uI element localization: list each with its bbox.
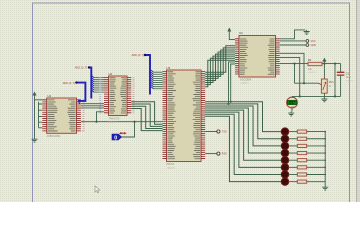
bottom rail wire	[292, 95, 341, 97]
junction wiper	[303, 82, 305, 84]
svg-text:10uF: 10uF	[346, 77, 352, 79]
junction LED rail 1	[324, 131, 326, 133]
wire U1 left rail 2	[38, 102, 40, 128]
resistor R7	[297, 166, 306, 169]
wire resistor R7 to rail	[307, 166, 326, 168]
junction LED rail 2	[324, 138, 326, 140]
wire VCC to RV1	[323, 64, 325, 79]
wire LED D5 to resistor	[289, 159, 298, 161]
wire RXD	[205, 153, 217, 155]
terminal GND	[306, 44, 309, 47]
svg-text:GND: GND	[311, 45, 316, 47]
resistor R5	[297, 151, 306, 154]
LED D3	[281, 142, 289, 150]
wire RV1 to ground	[323, 93, 325, 97]
junction U2 OE tap	[95, 121, 97, 123]
terminal RXD	[217, 152, 220, 155]
svg-text:TXD: TXD	[222, 132, 227, 134]
chip U4 ADC	[239, 36, 276, 78]
svg-text:<TEXT>: <TEXT>	[240, 82, 250, 85]
sheet border frame	[33, 3, 350, 202]
svg-text:RV1: RV1	[329, 81, 334, 84]
terminal TXD	[217, 130, 220, 133]
svg-text:<TEXT>: <TEXT>	[308, 71, 317, 74]
LED D7	[281, 171, 289, 179]
logicstate toggle arrows	[119, 132, 127, 134]
svg-text:AT89C2051: AT89C2051	[47, 134, 61, 138]
wire LED D3 to resistor	[289, 145, 298, 147]
mouse cursor	[95, 186, 100, 193]
wire LED D4 to resistor	[289, 152, 298, 154]
wire TXD	[205, 131, 217, 133]
wire logicstate to U3	[122, 122, 135, 137]
ground below meter	[288, 112, 294, 116]
resistor R8	[297, 173, 306, 176]
wire to terminal VCC	[280, 40, 306, 42]
resistor R4	[297, 144, 306, 147]
ground below LED rail	[322, 186, 328, 190]
bus entries to U3 left pins	[151, 70, 154, 89]
svg-text:74HC573: 74HC573	[109, 116, 121, 120]
wire to terminal GND	[280, 44, 306, 46]
voltmeter probe	[291, 96, 293, 97]
pot wiper arrow	[319, 83, 322, 84]
resistor R3	[297, 137, 306, 140]
wire meter to ground	[291, 108, 293, 112]
junction LED rail 7	[324, 174, 326, 176]
LED D8	[281, 178, 289, 186]
wire resistor R8 to rail	[307, 174, 326, 176]
LED common rail	[324, 132, 326, 186]
bus entries to U2 left pins	[91, 76, 94, 93]
svg-text:<TEXT>: <TEXT>	[109, 121, 119, 124]
junction control 2	[230, 101, 232, 103]
svg-text:ADC0804: ADC0804	[240, 78, 252, 82]
LED D1	[281, 128, 289, 136]
wire U1 left rail 1	[34, 96, 36, 138]
junction logicstate tap	[133, 121, 135, 123]
LED D6	[281, 164, 289, 172]
wire resistor R4 to rail	[307, 145, 326, 147]
svg-text:U1: U1	[48, 94, 52, 98]
power +5V arrow near U1	[33, 92, 37, 96]
potentiometer RV1	[321, 79, 327, 93]
junction LED rail 5	[324, 159, 326, 161]
wire LED D6 to resistor	[289, 166, 298, 168]
LED D5	[281, 156, 289, 164]
svg-text:R1: R1	[308, 58, 312, 62]
wire resistor R5 to rail	[307, 152, 326, 154]
svg-text:U4: U4	[239, 31, 243, 35]
svg-text:RXD: RXD	[222, 154, 227, 156]
svg-text:C1: C1	[346, 71, 350, 75]
junction at C1 branch	[334, 63, 336, 65]
wire U1 to U2 data 3	[81, 107, 104, 109]
bus ADD upper to U2	[89, 68, 91, 99]
resistor R6	[297, 159, 306, 162]
wire VIN- down	[280, 53, 304, 83]
wire resistor R3 to rail	[307, 138, 326, 140]
wire U1 to U2 data 1	[81, 103, 104, 105]
wires U3 to U4 staircase	[205, 46, 235, 72]
wire VREF to R1	[280, 63, 308, 65]
capacitor C1	[340, 64, 342, 72]
ground top right	[304, 30, 310, 34]
wire resistor R2 to rail	[307, 131, 326, 133]
wire LED D7 to resistor	[289, 174, 298, 176]
wire LED D1 to resistor	[289, 131, 298, 133]
LED D2	[281, 135, 289, 143]
window edge	[357, 0, 360, 202]
power +5V arrow at U4	[227, 28, 231, 32]
wires U4 control down to U3 bus	[229, 62, 236, 104]
wire LED D8 to resistor	[289, 181, 298, 183]
svg-text:ADD..[0..7]: ADD..[0..7]	[63, 82, 76, 85]
junction R1 right	[323, 63, 325, 65]
wire LED D2 to resistor	[289, 138, 298, 140]
junction control 1	[227, 103, 229, 105]
chip U2	[109, 76, 128, 116]
junction LED rail 4	[324, 152, 326, 154]
wire U1 to U2 data 2	[81, 105, 104, 107]
svg-text:U3: U3	[167, 66, 171, 70]
svg-text:ADD..[0..7]: ADD..[0..7]	[75, 67, 88, 70]
svg-text:80C51: 80C51	[167, 162, 175, 166]
LED D4	[281, 149, 289, 157]
svg-text:0: 0	[114, 136, 117, 142]
resistor R1	[308, 62, 322, 65]
terminal VCC	[306, 40, 309, 43]
bus ADD left stub	[76, 83, 85, 101]
junction LED rail 3	[324, 145, 326, 147]
bus ADD to U3	[145, 55, 150, 95]
svg-text:<TEXT>: <TEXT>	[346, 79, 355, 82]
svg-text:ADD..[0..7]: ADD..[0..7]	[132, 54, 145, 57]
svg-text:VCC: VCC	[311, 41, 316, 43]
svg-text:<TEXT>: <TEXT>	[167, 167, 177, 170]
wire wiper rail	[295, 64, 319, 84]
svg-text:U2: U2	[109, 72, 113, 76]
wire R1 to C1	[322, 63, 341, 65]
junction LED rail 6	[324, 167, 326, 169]
junction meter rail	[299, 95, 301, 97]
wire U4 AGND to ground	[280, 30, 306, 39]
resistor R2	[297, 130, 306, 133]
chip U1	[47, 98, 77, 133]
wires U2 to U3 staircase	[131, 102, 162, 125]
chip U3 microcontroller	[167, 70, 202, 162]
wire resistor R6 to rail	[307, 159, 326, 161]
power arrow at RV1	[322, 58, 326, 62]
junction VREF	[293, 63, 295, 65]
resistor R9	[297, 180, 306, 183]
wire VIN+ to meter net	[280, 57, 300, 96]
wire U1 P3 long net to U3	[81, 121, 163, 123]
logic state probe 0	[112, 134, 122, 140]
junction C1 bottom	[334, 95, 336, 97]
vertical net R1 to bottom rail	[334, 64, 336, 97]
wire U2 OE down	[97, 112, 105, 122]
wire resistor R9 to rail	[307, 181, 326, 183]
ground below U1 rail	[32, 138, 38, 142]
wires U3 to LED staircase	[205, 102, 281, 132]
ground below RV1	[321, 97, 327, 101]
